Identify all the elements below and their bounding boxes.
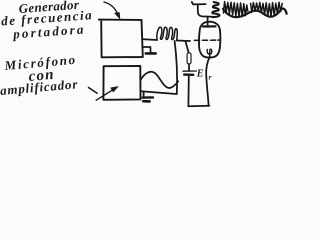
cathode (filament curl) [207,49,212,56]
svg-text:E: E [196,69,204,80]
audio sine wave (modulating signal) [141,72,179,88]
label: Micrófono con amplificador [0,52,79,98]
wire resistor to battery [188,64,190,70]
ground (amplifier) [143,92,153,101]
arrow to amplifier box [96,87,118,101]
wire: branch to grid resistor [185,41,188,53]
vacuum tube V1 (triode envelope) [199,22,220,58]
modulated carrier wave (lower envelope) [223,9,287,18]
ground (oscillator) [143,47,155,53]
resistor (grid leak) [187,53,191,64]
modulated carrier wave (zigzag spikes) [223,2,282,17]
antenna (T) [192,2,213,17]
wire from inductor to tube grid [177,40,190,43]
plate lead [207,17,209,27]
inductor L (tank coil) [157,27,177,40]
battery Er [183,71,196,75]
wire cathode lead [206,57,210,106]
wire battery to bottom [187,75,189,106]
wire from oscillator to inductor [144,38,158,41]
wire from amplifier (bottom audio lead) [141,91,176,94]
coupling coil (antenna coil) [212,2,219,17]
arrow to oscillator box [104,2,120,19]
flourish tail of amplificador [89,88,98,94]
amplifier box [103,66,140,100]
label: Generador de frecuencia portadora [1,0,94,42]
wire bottom (cathode return) [188,105,209,107]
wire: branch down to audio loop [175,41,177,94]
plate (anode) bar [203,25,215,27]
grid (dashed) [194,39,220,41]
oscillator box [99,20,143,58]
svg-text:r: r [209,73,212,82]
